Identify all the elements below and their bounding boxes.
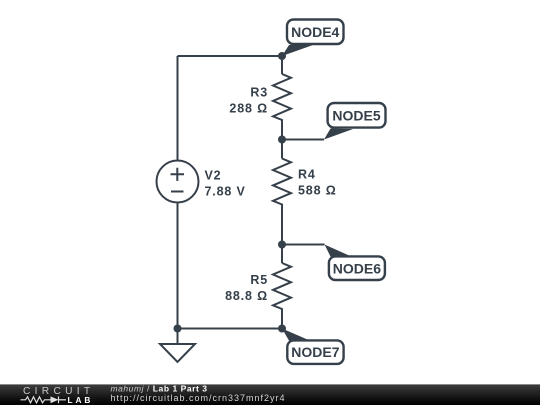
node junction NODE7 — [278, 325, 286, 333]
wire NODE5 stub — [282, 139, 324, 141]
svg-text:R3: R3 — [250, 86, 268, 100]
CircuitLab logo resistor-diode squiggle — [21, 396, 67, 403]
svg-text:V2: V2 — [205, 169, 222, 183]
wire NODE6 stub — [282, 244, 325, 246]
resistor R5 — [273, 263, 291, 329]
wire R4 to R5 lead — [281, 245, 283, 264]
callout NODE4 — [282, 20, 344, 57]
svg-text:NODE5: NODE5 — [332, 107, 380, 123]
resistor R3 — [273, 74, 291, 140]
footer bar — [0, 384, 540, 405]
wire top horizontal V2 to NODE4 — [178, 55, 283, 57]
wire bottom horizontal ground to NODE7 — [178, 328, 283, 330]
voltage source V2 — [157, 161, 199, 203]
svg-text:7.88 V: 7.88 V — [205, 185, 246, 199]
svg-text:R4: R4 — [298, 168, 316, 182]
wire left vertical top — [177, 56, 179, 161]
svg-text:NODE4: NODE4 — [291, 24, 339, 40]
resistor R4 — [273, 159, 291, 245]
node junction NODE4 — [278, 52, 286, 60]
svg-text:NODE6: NODE6 — [333, 260, 381, 276]
svg-text:NODE7: NODE7 — [291, 344, 339, 360]
svg-text:R5: R5 — [250, 273, 268, 287]
wire R3 to R4 lead — [281, 140, 283, 159]
node junction NODE6 — [278, 241, 286, 249]
wire left vertical bottom — [177, 203, 179, 345]
ground — [160, 344, 195, 362]
node junction NODE5 — [278, 136, 286, 144]
wire NODE4 to R3 lead — [281, 56, 283, 74]
svg-text:http://circuitlab.com/crn337mn: http://circuitlab.com/crn337mnf2yr4 — [111, 393, 286, 403]
svg-text:588 Ω: 588 Ω — [298, 184, 337, 198]
node junction ground — [174, 325, 182, 333]
callout NODE5 — [324, 103, 386, 140]
svg-text:LAB: LAB — [68, 395, 94, 405]
callout NODE7 — [282, 329, 344, 364]
callout NODE6 — [325, 245, 385, 281]
svg-text:88.8 Ω: 88.8 Ω — [225, 289, 268, 303]
CircuitLab logo diode triangle — [51, 396, 59, 403]
svg-text:288 Ω: 288 Ω — [229, 102, 268, 116]
